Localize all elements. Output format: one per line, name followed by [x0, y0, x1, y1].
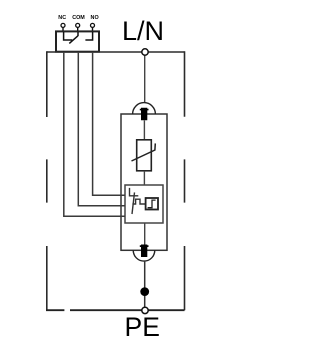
terminal NO [91, 23, 95, 27]
svg-text:NC: NC [58, 15, 66, 21]
wire varistor to monitoring unit [143, 171, 145, 185]
varistor diagonal [132, 143, 156, 161]
switch blade [69, 36, 78, 44]
svg-text:PE: PE [125, 312, 160, 342]
terminal PE [142, 307, 148, 313]
svg-text:COM: COM [72, 15, 85, 21]
wire COM terminal stub [77, 27, 79, 31]
wire NC terminal stub [62, 27, 64, 31]
wire bottom contact to PE [144, 261, 146, 307]
protection module outline [121, 114, 167, 250]
enclosure right edge (dashed) [184, 51, 186, 310]
wire NO terminal stub [92, 27, 94, 31]
wire NO to monitoring unit [93, 53, 125, 195]
terminal NC [61, 23, 65, 27]
bottom plug-in contact arc [133, 250, 155, 261]
top plug-in contact blade [140, 108, 149, 121]
monitoring unit box [125, 185, 163, 223]
enclosure top edge [47, 51, 185, 53]
enclosure bottom edge [46, 309, 185, 311]
terminal L/N [142, 49, 148, 55]
varistor body [137, 140, 152, 171]
wire COM to monitoring unit [78, 53, 125, 206]
terminal COM [76, 23, 80, 27]
switch NO contact [85, 32, 92, 40]
svg-text:NO: NO [91, 15, 99, 21]
wire monitoring unit to bottom contact [144, 223, 146, 245]
junction dot [140, 287, 149, 296]
wire NC to monitoring unit [64, 53, 125, 216]
svg-text:L/N: L/N [122, 16, 164, 46]
wire contact to varistor [143, 120, 145, 140]
enclosure left edge (dashed) [46, 51, 48, 310]
disconnector blade [132, 192, 135, 214]
signal step wire [132, 199, 145, 204]
signal output box [146, 198, 158, 210]
top plug-in contact arc [133, 103, 156, 114]
switch COM pole [77, 32, 79, 36]
switch NC contact [64, 32, 73, 40]
remote signalling changeover contact box [56, 31, 99, 51]
thermal disconnector mark [130, 188, 139, 196]
bottom plug-in contact blade [140, 245, 149, 258]
wire L/N to protection module [144, 52, 146, 103]
signal pulse glyph [148, 200, 156, 208]
